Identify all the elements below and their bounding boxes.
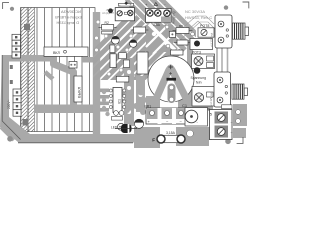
C1 polarity plus	[169, 65, 174, 69]
wire: leads between transistors T1 T2	[217, 48, 228, 72]
transistor T2 on heatsink	[214, 72, 231, 107]
pad plate bottom-left of terminal X3	[185, 108, 208, 126]
op-amp IC1	[113, 88, 122, 113]
svg-text:2,5A: 2,5A	[153, 23, 160, 27]
switch S2 footprint ВЫКЛ	[74, 76, 82, 102]
svg-text:+U 12V out: +U 12V out	[209, 92, 213, 106]
svg-text:R2: R2	[105, 21, 109, 25]
pad pair left of transformer	[10, 65, 13, 69]
svg-text:R8: R8	[179, 24, 183, 28]
connector J1 upper (mains side)	[12, 34, 21, 58]
svg-text:Export-x ПЕРВ: Export-x ПЕРВ	[55, 15, 82, 20]
svg-text:D amp 133H: D amp 133H	[56, 20, 79, 25]
transistor Q1	[112, 36, 120, 44]
wire: capacitor legs to bridge	[146, 96, 160, 112]
pad in bottom trace mass	[187, 130, 194, 137]
diode D1	[102, 31, 113, 34]
svg-text:+U 12V out: +U 12V out	[210, 33, 214, 47]
heatsink HS2	[232, 84, 248, 99]
svg-text:NC 30V/3A: NC 30V/3A	[61, 9, 81, 14]
LED1	[118, 123, 125, 130]
resistor R10	[124, 60, 130, 68]
resistor R5	[134, 27, 146, 33]
mounting hole dot top-right	[224, 5, 228, 9]
svg-text:HWS33, Rev C: HWS33, Rev C	[185, 15, 212, 20]
pad in right edge trace	[236, 110, 241, 115]
fuse holder F2 body	[115, 8, 134, 21]
wire: bottom edge trace band	[18, 134, 134, 143]
transformer winding hatch strips	[21, 8, 34, 132]
terminal block X2 (3 way output)	[145, 8, 171, 22]
wire: traces left of big capacitor	[124, 58, 134, 112]
svg-text:IC1: IC1	[118, 99, 122, 104]
silkscreen mirrored label near fuse holder	[102, 8, 114, 15]
svg-text:ВЫКЛ: ВЫКЛ	[76, 86, 81, 98]
svg-text:fein: fein	[196, 81, 202, 85]
trimmer POT1	[190, 39, 213, 50]
mounting hole dot bottom-right	[225, 139, 231, 145]
board bottom edge line	[2, 55, 20, 140]
wire: tent shaped trace inside C1	[149, 65, 193, 107]
wire: trace mass below bridge rectifier	[134, 127, 160, 148]
fuse holder F2 top bracket	[118, 3, 133, 6]
small rect R31	[222, 105, 233, 109]
resistor R8 vertical	[110, 54, 116, 68]
wire: bottom-left corner stripes	[1, 118, 26, 140]
capacitor C10 cluster	[114, 111, 119, 116]
wire: horizontal trace through transformer y105	[34, 105, 94, 114]
heatsink HS1	[233, 23, 249, 39]
big filter capacitor C1 outline	[148, 56, 194, 102]
capacitor C8	[171, 50, 184, 55]
wire: vertical trace right of transformer	[93, 12, 100, 134]
core mark bottom	[23, 119, 29, 126]
core mark top	[24, 24, 30, 30]
capacitor C2	[137, 52, 148, 74]
transformer TR1 footprint block	[21, 8, 96, 132]
resistor R9b	[177, 40, 188, 45]
resistor R12 horizontal	[116, 76, 129, 82]
C1 negative plate bar	[169, 72, 172, 75]
title text top right	[185, 9, 212, 20]
wire: via pads on stripes	[95, 20, 135, 78]
resistor R2	[102, 25, 114, 30]
transistor T1 on heatsink	[215, 15, 232, 48]
switch S1 footprint ВКЛ	[44, 47, 88, 56]
wire: pads left of IC1	[102, 90, 110, 116]
connector J2 lower (secondary side)	[13, 89, 21, 116]
capacitor C7 square	[169, 31, 175, 37]
wire: diagonal trace bundle centre (solder side)	[51, 0, 237, 95]
svg-text:LED: LED	[111, 126, 118, 130]
wire: pads cluster around IC	[124, 63, 147, 115]
resistor R9 small	[119, 53, 127, 59]
wire: vertical trace left of POT column	[187, 40, 193, 108]
corner mark top-right	[243, 2, 249, 8]
wire: diagonal trace bundle under terminals	[122, 0, 212, 50]
svg-text:+: +	[130, 3, 132, 7]
resistor R8	[176, 28, 189, 34]
wire: stub from left edge	[45, 72, 53, 79]
svg-text:ВКЛ: ВКЛ	[53, 51, 60, 55]
wire: trace mass bottom right quadrant	[185, 96, 213, 110]
svg-text:Spannung: Spannung	[191, 76, 207, 80]
pads around R8 group	[165, 25, 194, 49]
transistor Q5	[134, 119, 143, 128]
wire: stub to right vertical band	[82, 57, 94, 63]
wire: S-bend trace through transformer block	[54, 54, 74, 113]
svg-text:3,15A: 3,15A	[166, 131, 176, 135]
mounting hole dot top-left	[10, 7, 14, 11]
silkscreen mirrored title text on transformer	[55, 9, 82, 25]
corner mark top-left	[3, 3, 9, 9]
wire: horizontal trace through transformer y58	[4, 55, 50, 62]
wire: fingers from band to IC1	[100, 89, 127, 112]
svg-text:F: F	[152, 138, 155, 143]
wire: outlined traces top-right (component side)	[176, 16, 232, 40]
wire: left board-edge ground trace	[0, 55, 30, 142]
svg-text:Ausgang: Ausgang	[172, 11, 176, 24]
transistor Q7	[194, 67, 201, 74]
C1 pad strip	[167, 83, 177, 103]
wire: patch below terminal X2	[146, 25, 173, 52]
capacitor C3 below switch	[69, 62, 77, 69]
mounting hole dot bottom-left	[7, 136, 13, 142]
capacitor C4 small	[108, 8, 113, 13]
resistor R7 vertical	[110, 45, 115, 53]
diode D5 power	[121, 124, 132, 133]
terminal block X3 (output 2 way)	[210, 110, 233, 140]
transistor Q2	[130, 40, 137, 47]
svg-text:220V~: 220V~	[7, 100, 11, 109]
corner mark bottom-right	[237, 137, 243, 143]
svg-text:NC 30V/3A: NC 30V/3A	[185, 9, 205, 14]
fuse holder diamond mark	[124, 1, 128, 5]
